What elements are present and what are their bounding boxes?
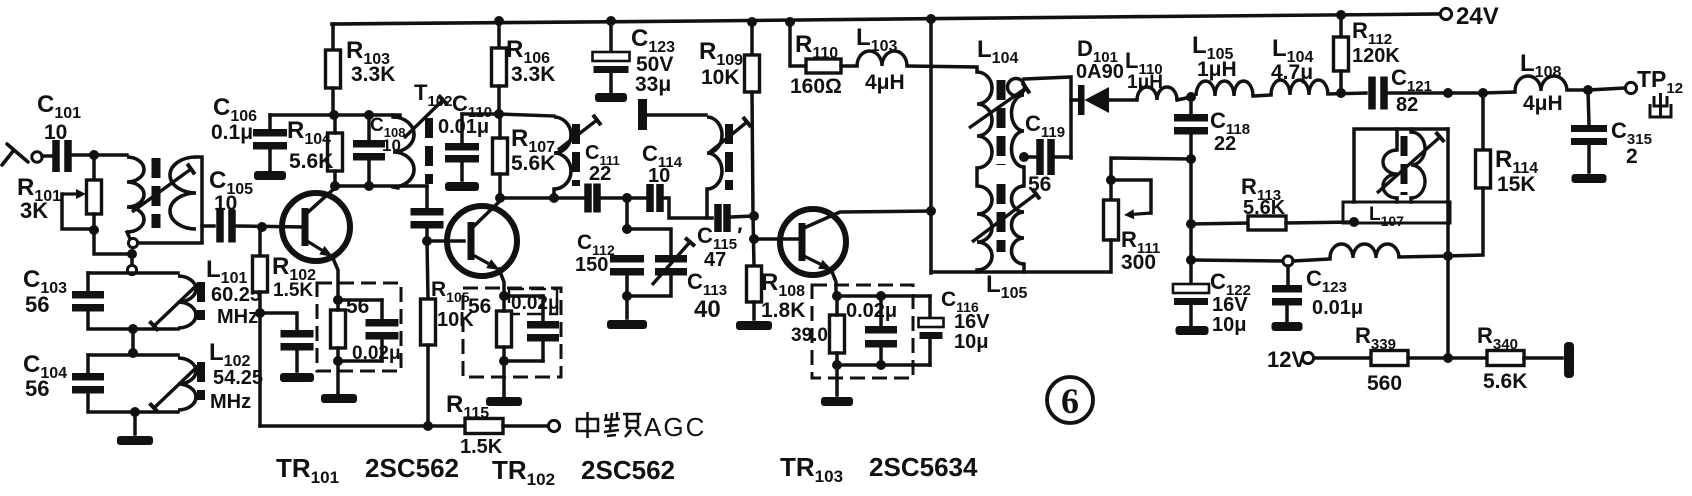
wire Ce2 top <box>541 296 545 321</box>
wire C315 to ground <box>1587 145 1591 172</box>
wire TR103 emitter down <box>831 269 836 296</box>
wire tank2 left <box>86 355 90 372</box>
core T104 <box>725 124 733 190</box>
wiper arrow R111 <box>1124 209 1151 219</box>
wire node to R111 <box>1111 158 1191 200</box>
label C115 value <box>704 249 726 271</box>
label R113 value <box>1243 197 1286 219</box>
wire R107 top <box>498 114 502 138</box>
label L104 coil <box>1272 35 1313 66</box>
tuning arrow L104 <box>969 83 1030 128</box>
wire L105 bottom <box>975 270 979 272</box>
label C116 <box>941 288 979 315</box>
wire diode to L110 <box>1109 98 1137 102</box>
dashed box TR101 emitter <box>317 283 401 371</box>
wire coil T104 bottom <box>705 189 709 218</box>
wire R114 bottom <box>1448 188 1483 256</box>
svg-text:1.5K: 1.5K <box>273 280 313 301</box>
wire C109 to base <box>427 227 464 241</box>
wire R105 to AGC <box>426 345 430 426</box>
svg-text:22: 22 <box>589 163 611 185</box>
inductor L106 <box>1330 244 1399 258</box>
label R109 <box>699 38 743 69</box>
node emitter entry TR101 <box>333 295 343 305</box>
terminal 12V <box>1302 352 1313 363</box>
wire box top TR103 <box>837 294 930 298</box>
label R115 value <box>460 436 503 458</box>
node coil T103 bottom <box>549 193 559 203</box>
terminal TP12 <box>1625 82 1636 93</box>
wire to TP12 <box>1588 88 1625 90</box>
label C116 value <box>954 331 988 353</box>
emitter TR101 <box>307 241 333 257</box>
wire node to R101 <box>92 155 96 180</box>
wire Ce1 top <box>380 300 384 319</box>
node trunk top <box>127 249 137 259</box>
tuning arrow T104 <box>710 117 751 152</box>
resistor R105 <box>421 299 436 345</box>
node rail R109 <box>747 17 757 27</box>
svg-text:3.3K: 3.3K <box>351 63 395 86</box>
capacitor C116 electrolytic <box>919 318 944 339</box>
label 24V <box>1456 3 1499 30</box>
svg-text:MHz: MHz <box>210 391 251 413</box>
capacitor C106 <box>253 129 287 150</box>
wire box to diode <box>1071 98 1078 102</box>
wire L106 line <box>1191 260 1282 261</box>
svg-text:0.02μ: 0.02μ <box>511 293 560 314</box>
wire L107 left bottom <box>1395 198 1399 202</box>
node TR103 base tap <box>749 234 759 244</box>
wiper bracket R111 <box>1111 180 1151 213</box>
svg-text:12V: 12V <box>1267 347 1306 372</box>
node C108 top <box>364 110 374 120</box>
capacitor C315 <box>1571 125 1607 145</box>
wire TR101 emitter down <box>332 256 338 300</box>
ground TR101 emitter <box>321 394 357 403</box>
wire L107 left top <box>1395 129 1399 150</box>
node L106 right <box>1443 251 1453 261</box>
ground bypass <box>280 373 314 382</box>
wire tap to bypass cap <box>260 313 297 329</box>
label L102 freq <box>213 367 263 389</box>
wire tank1 left <box>86 273 90 290</box>
wire tank2 top <box>88 353 178 357</box>
wire node to R340 <box>1448 356 1487 360</box>
label R103 value <box>351 63 395 86</box>
wire C111 to C114 <box>601 196 646 200</box>
node box bottom left TR103 <box>832 360 842 370</box>
wire C101 to node <box>72 153 127 157</box>
resistor R112 <box>1334 37 1349 71</box>
label L101 freq <box>211 284 261 306</box>
wire C123b down <box>1286 266 1290 284</box>
transformer L107 left winding <box>1383 150 1397 198</box>
wire C315 down <box>1588 90 1589 124</box>
tuning arrow L102 <box>150 366 199 413</box>
wire box bottom TR101 <box>338 359 382 363</box>
svg-text:10μ: 10μ <box>1212 314 1246 336</box>
label R114 value <box>1497 173 1536 196</box>
label L103 <box>856 24 897 55</box>
label TR102 type <box>492 455 675 489</box>
dashed box TR103 emitter <box>812 285 913 378</box>
node TR101 base <box>257 222 267 232</box>
wire box bottom TR103 <box>837 363 930 367</box>
label R112 value <box>1352 45 1400 67</box>
svg-text:5.6K: 5.6K <box>289 150 333 173</box>
capacitor C123 second <box>1272 285 1302 306</box>
wire C114 to C115 <box>664 198 712 218</box>
core L104 <box>997 80 1006 165</box>
diode D101 <box>1078 85 1109 115</box>
label C113 value <box>694 296 721 323</box>
wire shunt loop bottom <box>627 274 671 296</box>
terminal lug <box>1564 342 1574 378</box>
coil T104 <box>707 117 722 189</box>
wire box top TR101 <box>338 298 382 302</box>
resistor TR103 emitter 39 <box>830 315 845 353</box>
label C118 <box>1210 108 1250 138</box>
capacitor C101 <box>52 140 72 172</box>
label R106 <box>506 36 550 67</box>
wire antenna to C101 <box>42 154 51 158</box>
node L106 wire <box>1186 255 1196 265</box>
label R105 value <box>437 309 474 331</box>
ground C315 <box>1572 174 1607 183</box>
wire tank1 to tank2 <box>131 329 135 355</box>
resistor R104 <box>328 133 343 171</box>
label L104 coil value <box>1271 61 1313 84</box>
wire base to R102 <box>258 227 262 256</box>
capacitor C108 <box>353 140 385 161</box>
tuning arrow T101 <box>132 164 195 212</box>
svg-text:4.7μ: 4.7μ <box>1271 61 1313 84</box>
node tank tap circle <box>127 265 136 274</box>
svg-text:3K: 3K <box>20 198 48 223</box>
wire rail drop <box>929 19 933 273</box>
wire TR102 emitter down <box>499 269 504 296</box>
node R107 bottom <box>495 193 505 203</box>
capacitor TR103 emitter bypass <box>865 326 897 348</box>
svg-text:1μH: 1μH <box>1127 72 1163 93</box>
tuning arrow L107 <box>1377 132 1444 193</box>
inner dashed box 0.02u <box>509 289 557 314</box>
capacitor C107 bypass <box>281 330 314 351</box>
node L107 bottom left <box>1349 217 1359 227</box>
ground C123b <box>1272 322 1303 331</box>
wire box top TR102 <box>504 294 543 298</box>
wire C108 bottom <box>367 159 371 186</box>
node box bottom TR102 <box>499 356 509 366</box>
label C101 value <box>44 121 67 144</box>
ground C106 <box>254 171 286 180</box>
dashed box TR102 emitter <box>463 288 561 377</box>
node shunt bottom <box>622 291 632 301</box>
resistor R106 <box>492 48 507 86</box>
svg-text:1μH: 1μH <box>1197 58 1237 81</box>
wire TR102 collector <box>473 200 501 227</box>
svg-text:22: 22 <box>1214 133 1236 155</box>
node R111 top <box>1106 175 1116 185</box>
ground C123 <box>595 93 627 102</box>
transformer T101 secondary <box>170 157 196 229</box>
svg-text:160Ω: 160Ω <box>790 75 842 98</box>
wire Re3 bottom <box>835 353 839 365</box>
figure number 6 <box>1047 377 1093 423</box>
wire rail to C123 <box>609 21 613 52</box>
svg-text:4μH: 4μH <box>865 71 905 94</box>
transformer secondary upper <box>1012 95 1025 167</box>
ground C122 <box>1176 326 1209 335</box>
wire L105 to L104 <box>1253 95 1271 96</box>
terminal AGC <box>548 420 559 431</box>
capacitor C105 <box>216 210 236 243</box>
label C110 value <box>438 116 489 138</box>
wire L107 right bottom <box>1409 198 1413 202</box>
label R112 <box>1352 18 1392 48</box>
capacitor C114 <box>646 184 664 212</box>
node TR102 base feed <box>422 236 432 246</box>
label R111 <box>1121 227 1160 257</box>
wire trunk <box>130 254 134 273</box>
resistor R109 <box>745 55 760 92</box>
label C123 <box>631 25 675 56</box>
wire collector line to C109 <box>425 186 429 207</box>
node R114 top <box>1478 88 1488 98</box>
label R107 <box>511 125 555 156</box>
node emitter entry TR103 <box>832 291 842 301</box>
wire C123 to ground <box>609 73 613 92</box>
wire L103 to transformer <box>907 66 977 72</box>
label C112 <box>577 231 615 258</box>
svg-text:10: 10 <box>648 165 670 187</box>
label L104 transformer <box>977 36 1018 67</box>
node rail collector drop <box>926 14 936 24</box>
inductor L102 <box>178 358 196 410</box>
label 12V <box>1267 347 1306 372</box>
svg-text:24V: 24V <box>1456 3 1499 30</box>
inductor L110 <box>1137 87 1177 100</box>
wire L106 to node <box>1399 256 1448 257</box>
svg-text:56: 56 <box>346 295 369 318</box>
wire R104 top <box>333 115 337 133</box>
wire Re3 top <box>835 296 839 315</box>
wire T101 bottom <box>138 241 202 245</box>
core L105 <box>997 184 1006 252</box>
ground TR102 emitter <box>486 397 522 406</box>
ground R108 <box>736 321 772 330</box>
wire box to ground TR102 <box>502 361 506 396</box>
resistor TR101 emitter <box>331 310 346 348</box>
svg-text:TR101 2SC562: TR101 2SC562 <box>276 453 459 487</box>
node rail C123 <box>606 16 616 26</box>
node R104 bottom <box>330 181 340 191</box>
ground TR103 emitter <box>821 397 853 406</box>
wire rail to R106 <box>497 21 501 48</box>
wire collector line <box>335 184 427 188</box>
transistor TR102 <box>447 206 517 276</box>
wire 24V supply rail <box>332 14 1440 24</box>
label C103 <box>23 266 67 297</box>
core L107 <box>1401 136 1408 195</box>
label R107 value <box>511 152 555 175</box>
wire tank1 top <box>88 271 178 275</box>
transistor TR103 <box>780 209 846 275</box>
label C114 value <box>648 165 670 187</box>
node L107 top <box>1443 88 1453 98</box>
wire collector TR102 line <box>499 196 585 200</box>
svg-text:56: 56 <box>25 292 49 317</box>
wire C110 down <box>460 114 464 142</box>
label C108 <box>370 115 405 140</box>
capacitor TR102 emitter bypass <box>527 321 559 342</box>
wire rail to R112 <box>1339 15 1343 37</box>
label C122 value <box>1212 314 1246 336</box>
label R102 <box>272 253 316 284</box>
node tank1 bottom <box>128 324 138 334</box>
label L105 transformer <box>986 271 1027 302</box>
label 0.02u TR103 box <box>846 300 897 322</box>
node emitter entry TR102 <box>499 291 509 301</box>
resistor R108 <box>747 266 762 302</box>
label C106 value <box>211 121 253 144</box>
svg-text:82: 82 <box>1396 94 1418 116</box>
wire T102 top <box>391 115 395 117</box>
label R101 <box>17 174 61 205</box>
wire L104 mid <box>975 168 979 186</box>
svg-text:MHz: MHz <box>217 306 258 328</box>
node C108 bottom <box>364 181 374 191</box>
node shunt top <box>622 224 632 234</box>
wire TR101 collector <box>307 187 336 213</box>
wire tank2 left bottom <box>88 392 178 412</box>
node R339 R340 <box>1443 353 1453 363</box>
wiper arrow R101 <box>62 189 86 199</box>
wire R112 bottom <box>1339 71 1343 93</box>
emitter TR103 <box>804 256 832 270</box>
wire T101 primary bottom <box>127 232 131 241</box>
svg-text:33μ: 33μ <box>635 73 671 96</box>
label R115 <box>446 391 489 422</box>
wire Ce2 bottom <box>541 340 545 361</box>
svg-text:150: 150 <box>575 254 608 276</box>
wire R101 to trunk <box>94 230 132 254</box>
svg-text:TR102 2SC562: TR102 2SC562 <box>492 455 675 489</box>
label C113 <box>687 269 727 299</box>
svg-text:56: 56 <box>25 376 49 401</box>
label 56 TR102 box <box>468 295 491 318</box>
label C114 <box>642 141 683 171</box>
svg-text:2: 2 <box>1626 145 1638 168</box>
wire L107 right top <box>1409 129 1413 132</box>
label chu output <box>1650 93 1671 117</box>
label R104 <box>287 117 331 148</box>
terminal C123 tap <box>1283 256 1293 266</box>
wire R113 to L107 <box>1286 222 1354 223</box>
terminal antenna <box>32 152 42 162</box>
node T101 bottom circle <box>128 238 137 247</box>
label C122 <box>1210 269 1251 299</box>
node C119 tap <box>1019 152 1029 162</box>
label L110 <box>1125 48 1163 78</box>
wire bar to coil <box>647 113 706 117</box>
label R106 value <box>511 63 555 86</box>
wire node up <box>1446 256 1450 358</box>
wire rail to R110 <box>790 22 806 66</box>
label D101 type <box>1076 61 1124 83</box>
wire Re1 bottom <box>336 348 340 361</box>
wire R109 down <box>752 92 754 266</box>
capacitor C104 <box>72 373 104 394</box>
label C121 <box>1391 65 1432 95</box>
wire C108 top <box>367 115 371 140</box>
label C123b value <box>1312 297 1363 319</box>
resistor R111 <box>1104 200 1119 240</box>
wire shunt down <box>625 198 629 229</box>
wire Ce1 bottom <box>380 338 384 361</box>
wire node to R113 <box>1191 223 1248 224</box>
label R101 value <box>20 198 48 223</box>
transformer secondary top curl <box>1008 79 1025 96</box>
wire C116 bottom <box>928 340 932 365</box>
svg-text:40: 40 <box>694 296 721 323</box>
svg-text:10K: 10K <box>701 66 740 89</box>
wire C119 left <box>1024 155 1036 159</box>
inductor L104 coil <box>1271 80 1328 95</box>
label R111 value <box>1121 251 1156 274</box>
svg-text:5.6K: 5.6K <box>511 152 555 175</box>
svg-text:47: 47 <box>704 249 726 271</box>
box L107 label <box>1343 202 1450 223</box>
label L107 <box>1369 204 1404 229</box>
label D101 <box>1077 36 1118 66</box>
resistor R113 <box>1248 216 1286 230</box>
svg-text:10: 10 <box>44 121 67 144</box>
wire C123b to ground <box>1285 304 1289 321</box>
wire box to ground TR101 <box>336 361 340 393</box>
capacitor C111 <box>584 184 601 213</box>
resistor R110 <box>806 59 841 73</box>
label C121 value <box>1396 94 1418 116</box>
wire collector node line <box>270 113 400 117</box>
svg-text:560: 560 <box>1367 372 1402 395</box>
label R114 <box>1495 146 1538 177</box>
transformer L107 right winding <box>1411 132 1425 198</box>
svg-text:3.3K: 3.3K <box>511 63 555 86</box>
wire C122 to ground <box>1189 305 1193 325</box>
wire L110 to node <box>1177 97 1191 100</box>
label R103 <box>346 37 390 68</box>
svg-text:1.8K: 1.8K <box>761 299 805 322</box>
wire AGC line <box>260 424 465 428</box>
label 0.02u TR101 box <box>352 343 401 364</box>
svg-text:54.25: 54.25 <box>213 367 263 389</box>
capacitor C110 <box>445 143 479 163</box>
label C315 <box>1611 118 1652 148</box>
wire node to C122 <box>1189 260 1193 284</box>
wire C112 bottom <box>625 274 629 318</box>
node shunt tap <box>622 193 632 203</box>
label C106 <box>213 94 257 125</box>
label zhongpin AGC <box>577 412 706 442</box>
svg-text:6: 6 <box>1061 381 1079 421</box>
label TR103 type <box>780 452 978 486</box>
svg-text:56: 56 <box>1028 173 1051 196</box>
wire C105 to base TR101 <box>237 226 303 227</box>
label C105 <box>209 167 253 198</box>
label C108 value <box>382 136 401 155</box>
